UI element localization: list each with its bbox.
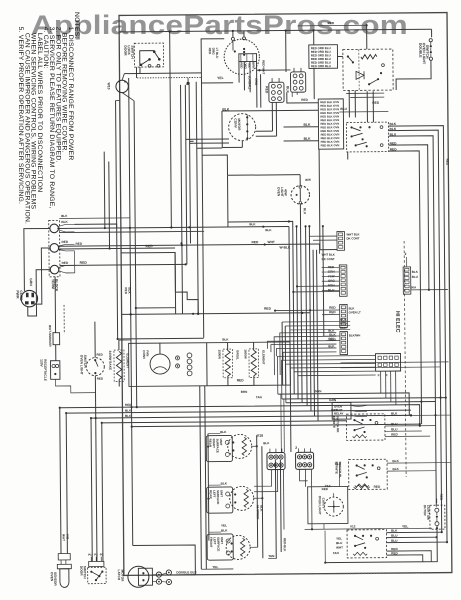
wire band y421 [102,421,347,423]
wire right drop3 [389,136,437,507]
wire V 293 [228,221,294,394]
svg-text:Y10: Y10 [334,462,340,466]
wire right drop4 [389,145,429,290]
wire bus y337 [118,337,204,340]
wire feed y138 [186,138,194,140]
wire V x198 [196,82,198,314]
wire V x182 [181,85,183,314]
svg-text:it: it [386,373,388,377]
svg-text:BLK: BLK [125,409,132,413]
svg-text:BLK: BLK [61,214,68,218]
svg-text:DK CONT: DK CONT [346,236,359,240]
wire A2 to S1 [319,149,337,250]
svg-text:BRN: BRN [251,62,255,68]
wire right drop1 [388,126,447,543]
svg-text:3600W: 3600W [243,349,247,359]
wire V 274 [274,460,277,558]
svg-text:BLK: BLK [328,329,335,333]
wire lamp top [299,175,301,186]
svg-text:PWR: PWR [15,290,19,299]
svg-text:OVEN LT: OVEN LT [349,310,361,314]
wire ols top [94,322,96,358]
inf sw 1 wires [385,414,451,417]
svg-text:SWITCH: SWITCH [83,566,87,580]
wire A2 left2 [284,140,319,142]
svg-text:UNIT: UNIT [220,537,224,544]
svg-text:BLK: BLK [303,208,307,215]
svg-text:REAR: REAR [208,439,212,448]
conv motor brushes [246,116,248,118]
wire box y172 [228,174,300,177]
relay board A [309,45,338,69]
wire box divider [206,343,208,386]
svg-text:RED: RED [146,244,154,248]
wire fan top [159,343,161,354]
clock circle [224,39,260,75]
wire relayB down2 [366,91,368,122]
wire receptacle down [55,379,95,393]
wire elbow 175 [175,252,198,314]
svg-text:2500W: 2500W [217,350,221,360]
svg-text:RED: RED [237,378,245,382]
wire Y junction [186,82,189,85]
svg-text:RED: RED [301,98,308,102]
wire outer top [436,499,438,503]
surface coil RR [228,434,252,458]
svg-text:RED BLK OVN: RED BLK OVN [321,143,340,147]
svg-text:SURFACE: SURFACE [216,537,220,551]
svg-text:BLK: BLK [222,337,229,341]
svg-text:SURFACE: SURFACE [216,490,220,504]
svg-text:RED: RED [439,494,443,501]
wire band y363 [341,361,449,364]
wire band y394 [278,393,409,417]
door switch pins [89,561,104,566]
svg-text:RED: RED [208,48,212,55]
wire x117 link [116,99,120,101]
svg-text:RED: RED [328,337,335,341]
strip S4 wires [322,335,340,337]
surface coil RL [230,486,254,510]
svg-text:LEFT: LEFT [212,490,216,498]
svg-text:BRN: BRN [241,390,248,394]
wire band y425 [132,424,420,427]
wire door lock feed dotted [137,76,201,79]
wire bottom run [232,573,420,575]
svg-text:REAR: REAR [209,490,213,499]
svg-text:RED BLK OVN: RED BLK OVN [320,111,339,115]
svg-text:LEFT: LEFT [213,537,217,545]
wire door lock left drop [135,67,137,78]
svg-text:SENSOR: SENSOR [53,572,57,586]
svg-text:BLK/WH: BLK/WH [349,333,360,337]
svg-text:RED BLK OVN: RED BLK OVN [320,107,339,111]
svg-text:WHT-SMOKER: WHT-SMOKER [48,325,52,347]
wire relayB top feed [366,25,368,49]
svg-text:WHT: WHT [62,534,66,541]
wire bake leads [118,343,120,350]
svg-text:RED BLK OVN: RED BLK OVN [321,132,340,136]
svg-text:RED: RED [96,353,103,357]
wire lamp top diag [122,74,124,81]
wire band y399 [282,398,446,399]
wire V out1 [103,152,106,228]
border frame [119,13,452,576]
clock internal contacts [232,40,234,50]
latch motor [128,566,149,587]
svg-text:BROIL: BROIL [235,350,239,359]
svg-text:WHT: WHT [267,240,274,244]
svg-text:BLK: BLK [221,482,228,486]
wire 50A [411,289,448,291]
svg-text:RED: RED [445,159,449,166]
connector pin pair [187,353,192,358]
junction dots misc [169,30,171,32]
svg-text:RED BLK OVN: RED BLK OVN [320,125,339,129]
infinite switch 2 [349,459,388,489]
svg-text:YEL: YEL [402,524,408,528]
svg-text:DOUBLE: DOUBLE [418,43,422,58]
svg-text:WHT BLK: WHT BLK [322,253,336,257]
svg-text:BLK: BLK [220,430,227,434]
wire elbow y228 [289,226,291,451]
svg-text:YEL: YEL [212,565,218,569]
wire V x190 [189,85,190,243]
svg-text:RED: RED [391,551,398,555]
svg-text:RIGHT: RIGHT [212,439,216,448]
svg-text:CORD: CORD [19,290,23,301]
svg-text:40W: 40W [284,189,288,197]
relay box A2 [318,99,343,149]
svg-text:LT BLU: LT BLU [215,48,219,60]
wire lamp bottom diag [122,93,134,101]
svg-text:BLU: BLU [391,539,398,543]
wire V x131 [129,78,133,545]
wire broil leads [227,343,229,351]
wire cavity top [338,466,340,487]
svg-text:BLK: BLK [340,326,347,330]
wire V x117 [116,100,118,338]
svg-text:SWITCH: SWITCH [425,45,429,59]
wire P2 top feed [285,30,287,71]
svg-text:120V: 120V [40,359,44,367]
wire V 313 [313,250,314,416]
wire right label runs [282,320,350,323]
wire surface chain [207,434,210,541]
oven selector switch box [346,122,388,152]
terminal 2 [50,244,59,253]
infinite switch 1 [346,414,385,441]
connector strip S2 [339,265,347,296]
svg-text:OVEN LIGHT: OVEN LIGHT [318,496,322,515]
svg-text:it: it [378,373,380,377]
broil element 1 [223,349,233,378]
oven sensor connector [58,553,70,560]
svg-text:2: 2 [295,446,297,450]
wire conn drops [254,470,272,487]
oven cavity light box [308,486,348,523]
wire bus y313 [122,313,310,315]
wire bake top feed [118,340,120,343]
svg-text:BLK: BLK [392,459,399,463]
wire term drop [54,277,56,333]
wire A2 left1 [283,126,318,128]
svg-text:MOTOR: MOTOR [237,118,241,131]
strip S2 wires [322,266,340,268]
wires into S4 [280,332,337,375]
svg-text:BLK: BLK [303,123,311,127]
wire V 297 [297,226,299,398]
svg-text:RED: RED [61,240,68,244]
svg-text:VIO: VIO [66,534,70,540]
svg-text:WHT: WHT [336,546,343,550]
oven light lamp [291,186,310,205]
svg-text:P3: P3 [94,553,98,557]
strip S5 top pin [406,257,408,267]
wire relayB left link [337,55,342,57]
svg-text:HI-SPEED: HI-SPEED [256,505,260,520]
svg-text:40W: 40W [305,178,311,182]
wire outer bottom [325,526,437,563]
svg-text:CONV: CONV [142,350,146,360]
connector strip S1 [337,231,345,250]
svg-text:LIGHT SW: LIGHT SW [426,505,430,520]
svg-text:RED: RED [124,287,128,294]
svg-text:P1: P1 [88,553,92,557]
svg-text:BLU: BLU [340,107,347,111]
svg-text:FAN: FAN [145,350,149,357]
svg-text:UNIT: UNIT [219,439,223,446]
svg-text:BLK: BLK [249,222,256,226]
fan connector pins [175,356,179,360]
svg-text:LATCH: LATCH [117,569,121,580]
svg-text:TERM: TERM [51,279,55,289]
wire V x134 [134,101,137,407]
bake element [114,350,124,381]
selector contacts [350,126,352,128]
wire bus y263 [60,264,186,265]
svg-text:TAN: TAN [268,554,275,558]
wires P3 down [380,371,382,393]
svg-text:BLU: BLU [336,541,342,545]
connector V10 B [296,452,314,469]
svg-text:BLK: BLK [259,505,263,512]
svg-text:BLK: BLK [221,529,228,533]
svg-text:RED BLK OVN: RED BLK OVN [320,114,339,118]
wire right drop2 [389,130,442,532]
wire box left drop [227,175,229,227]
wire nest V3 [91,418,92,562]
svg-text:DOUBLE BLK: DOUBLE BLK [176,570,197,574]
svg-text:2: 2 [405,252,407,256]
wire cavity bottom [323,524,325,529]
svg-text:RELAY: RELAY [334,411,344,415]
svg-text:BLK: BLK [61,220,68,224]
svg-text:(UNBAL): (UNBAL) [248,76,252,89]
wire top bus stub [298,24,367,27]
wire selector left [347,152,349,159]
wire term3 up [66,251,75,273]
svg-text:BLK: BLK [265,228,272,232]
infinite switch 3 [347,530,387,558]
door switch box [88,567,107,583]
wire door lock feed solid [124,72,201,75]
wire P2 bottom elbow [287,92,318,103]
connector V10 A [267,453,285,470]
oven box [129,342,291,387]
wires into S1 [309,235,336,237]
svg-text:OVEN: OVEN [277,187,281,197]
wire V 306 [306,226,308,405]
wire top bus L1 [119,29,431,32]
wire feed y142 [190,142,194,144]
wire V x186 [185,85,187,264]
svg-text:RED: RED [251,240,259,244]
svg-text:ORG: ORG [211,48,215,56]
relay box C2 [332,402,351,419]
svg-text:RED-BLK: RED-BLK [283,538,287,552]
fuse [53,333,60,345]
wire V x175 [174,252,177,314]
wire elbow band [293,393,295,395]
svg-text:V10: V10 [257,434,263,438]
surface unit RR [206,435,232,461]
svg-text:YEL: YEL [221,524,227,528]
wire feed y155 [202,155,227,176]
HI ELEC divider [404,241,406,477]
wire conv right leads [256,130,273,132]
svg-text:BLK: BLK [389,122,396,126]
connector P3 [375,353,400,371]
wire band y368 [341,366,441,369]
svg-text:RED BLK OVN: RED BLK OVN [321,129,340,133]
relay C2 wires [351,405,367,406]
wire nest V1 [60,408,61,554]
terminal fan wires [58,224,74,226]
svg-text:RED: RED [322,487,329,491]
svg-text:RED ORD BLU: RED ORD BLU [311,64,331,68]
inf sw 3 wires [386,531,441,533]
terminal block outline [49,220,60,276]
wire cord L2 [27,270,50,316]
outer light switch [430,505,445,529]
door switch contacts [90,571,92,573]
svg-text:CONV: CONV [233,118,237,128]
surface coil FL [226,535,250,559]
wire nest V2 [66,413,67,553]
wire bus y251 [121,251,175,253]
svg-text:LIGHT: LIGHT [280,187,284,197]
svg-text:RED: RED [75,242,82,246]
wire band y403 [286,401,435,402]
svg-text:BLK: BLK [412,270,419,274]
svg-text:BLK: BLK [127,287,131,294]
wire S3 feed2 [293,291,339,293]
double oven light switch [429,39,432,42]
wire surface rights [252,445,257,447]
relay B bottom wires [346,92,384,94]
svg-text:SWITCH RR: SWITCH RR [336,416,340,434]
wire feed1 [190,140,194,142]
svg-text:50A: 50A [411,285,416,289]
power cord plug [21,290,38,307]
svg-text:3400W BAKE: 3400W BAKE [108,351,112,371]
wire feed y147 [197,147,222,149]
wire band y406 [60,405,420,429]
svg-text:TAN: TAN [256,395,262,399]
svg-text:RED BLK OVN: RED BLK OVN [321,140,340,144]
svg-text:MOTOR: MOTOR [120,569,124,582]
svg-text:W10: W10 [107,83,111,90]
wire relayA top [313,30,315,45]
connector strip S3 [340,304,348,327]
oven sensor bulb [60,569,69,588]
relay B contacts [347,55,349,57]
svg-text:RED: RED [340,321,347,325]
latch motor pins [156,572,161,577]
svg-text:SURFACE: SURFACE [215,439,219,453]
relay B divider [358,49,360,90]
svg-text:RED BLK OVN: RED BLK OVN [320,104,339,108]
wire dols bottom [396,60,431,90]
svg-text:BLU: BLU [391,422,398,426]
surface unit RL [207,487,233,513]
svg-text:RED: RED [391,433,398,437]
broil element 2 [249,349,259,378]
wire V 255 [256,435,259,547]
svg-text:BLK: BLK [304,137,312,141]
svg-text:OVEN LIGHT: OVEN LIGHT [79,355,83,375]
svg-text:BLU: BLU [391,427,398,431]
wire conv left leads [194,138,229,140]
inf sw 2 wires [387,462,451,465]
wire clock right [257,69,291,71]
svg-text:GRN: GRN [329,398,337,402]
svg-text:UNIT: UNIT [219,490,223,497]
svg-text:DOOR: DOOR [123,45,127,56]
wire bus y222 [74,224,116,228]
svg-text:BLK: BLK [263,441,270,445]
wire dols top [431,29,433,37]
wire cord N [37,248,51,304]
svg-text:BLK: BLK [286,86,290,94]
wire bus y242 [59,244,320,246]
connector P2 [291,72,306,92]
wire yel bottom [201,568,233,570]
wire latch stub [175,574,195,576]
wire right drop5 [389,151,421,290]
svg-text:FRONT: FRONT [209,537,213,547]
svg-text:LOCK: LOCK [127,45,131,55]
connector strip S5 [403,267,411,294]
svg-text:YEL: YEL [336,537,342,541]
oven light switch [86,358,104,376]
svg-text:RED-WHT: RED-WHT [261,60,265,74]
wire lamp bottom [300,204,302,402]
wire clock drops [238,62,240,83]
svg-text:BLU: BLU [412,275,418,279]
wire V x172 [170,31,172,227]
svg-text:RED: RED [329,306,336,310]
wire latch loop [133,545,196,575]
svg-text:RED BLK OVN: RED BLK OVN [320,118,339,122]
svg-text:P5: P5 [100,553,104,557]
relay B diode [356,71,364,79]
wire relayA drop [313,68,315,99]
svg-text:TAN: TAN [333,551,339,555]
convection motor [229,114,256,141]
svg-text:RED BLK OVN: RED BLK OVN [320,100,339,104]
